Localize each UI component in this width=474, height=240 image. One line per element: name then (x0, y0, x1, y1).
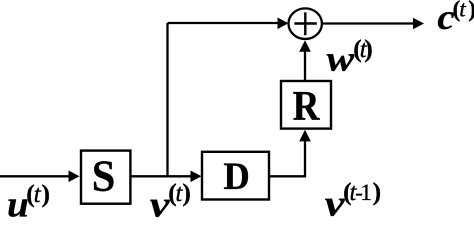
label u(t) (7, 179, 50, 225)
label c(t) (437, 0, 474, 37)
node v(t) junction (166, 23, 168, 176)
svg-text:R: R (293, 82, 321, 130)
label w(t) (327, 34, 373, 79)
wire R to summer w(t) (299, 40, 311, 81)
block R (281, 81, 331, 130)
wire D to R (269, 130, 311, 177)
svg-text:(t): (t) (26, 179, 50, 208)
svg-text:(t-1): (t-1) (343, 177, 381, 206)
svg-text:(t): (t) (353, 34, 373, 63)
svg-text:w: w (327, 40, 355, 79)
svg-text:D: D (223, 155, 249, 198)
block D (202, 152, 269, 200)
svg-text:(t): (t) (168, 178, 191, 207)
wire summer to output c (321, 18, 424, 30)
svg-text:S: S (92, 151, 116, 200)
wire input u to S (0, 171, 80, 183)
summing junction (289, 8, 322, 39)
svg-text:(t): (t) (453, 0, 474, 23)
wire S to D (130, 171, 201, 183)
label v(t-1) (325, 177, 381, 224)
label v(t) (150, 178, 191, 225)
wire junction to summer (168, 18, 289, 30)
block S (81, 151, 130, 204)
